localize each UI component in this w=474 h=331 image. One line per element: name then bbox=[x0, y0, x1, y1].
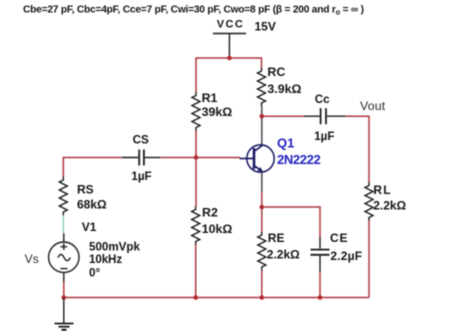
svg-text:2.2kΩ: 2.2kΩ bbox=[373, 199, 406, 213]
svg-text:2N2222: 2N2222 bbox=[277, 152, 321, 167]
svg-text:Vs: Vs bbox=[25, 252, 39, 266]
svg-text:R2: R2 bbox=[202, 206, 218, 220]
svg-text:RE: RE bbox=[268, 231, 285, 245]
node VCC junction bbox=[227, 56, 232, 61]
svg-text:RC: RC bbox=[267, 65, 285, 79]
power VCC symbol bbox=[213, 34, 246, 59]
svg-text:RS: RS bbox=[77, 183, 94, 197]
wire emitter to junction bbox=[261, 172, 263, 192]
svg-text:10kHz: 10kHz bbox=[89, 253, 122, 266]
resistor R1 bbox=[192, 92, 200, 131]
resistor RL bbox=[365, 182, 373, 221]
svg-text:15V: 15V bbox=[255, 19, 276, 33]
capacitor CS bbox=[122, 150, 161, 166]
wire Cc to Vout corner down to RL bbox=[346, 116, 369, 182]
resistor RE bbox=[258, 232, 266, 271]
ground bbox=[55, 298, 74, 330]
resistor RC bbox=[258, 68, 266, 107]
svg-text:Q1: Q1 bbox=[277, 136, 294, 151]
svg-text:Cbe=27 pF, Cbc=4pF, Cce=7 pF,: Cbe=27 pF, Cbc=4pF, Cce=7 pF, Cwi=30 pF,… bbox=[23, 4, 364, 16]
capacitor Cc bbox=[304, 108, 346, 124]
node collector junction bbox=[260, 114, 265, 119]
wire teal net RS to V1 bbox=[62, 216, 64, 234]
wire bottom rail bbox=[64, 297, 369, 299]
wire CS left to RS corner bbox=[63, 158, 122, 177]
svg-text:68kΩ: 68kΩ bbox=[77, 197, 107, 211]
wire base net (CS right to Q1 base) bbox=[161, 157, 241, 159]
wire R1 bottom to base node bbox=[195, 131, 197, 158]
svg-text:VCC: VCC bbox=[217, 18, 244, 30]
wire RE bottom to rail bbox=[261, 271, 263, 298]
svg-text:Vout: Vout bbox=[360, 99, 386, 113]
wire base node down to R2 bbox=[195, 158, 197, 207]
wire V1 to ground rail bbox=[63, 282, 65, 298]
wire top rail bbox=[196, 58, 262, 92]
wire R2 bottom to rail bbox=[195, 245, 197, 298]
svg-text:0°: 0° bbox=[89, 266, 100, 279]
capacitor CE bbox=[311, 237, 330, 272]
node R2-rail junction bbox=[193, 295, 198, 300]
wire RL bottom to rail bbox=[368, 221, 370, 298]
svg-text:2.2µF: 2.2µF bbox=[330, 249, 362, 263]
svg-text:500mVpk: 500mVpk bbox=[89, 240, 140, 253]
node bottom-left junction bbox=[62, 295, 67, 300]
svg-text:1µF: 1µF bbox=[314, 130, 334, 143]
wire RC bottom to collector bbox=[261, 107, 263, 146]
svg-text:1µF: 1µF bbox=[131, 170, 151, 183]
svg-text:10kΩ: 10kΩ bbox=[202, 222, 233, 236]
svg-text:CS: CS bbox=[133, 134, 149, 147]
resistor RS bbox=[59, 177, 67, 216]
node CE-rail junction bbox=[318, 295, 323, 300]
svg-text:39kΩ: 39kΩ bbox=[202, 105, 233, 119]
transistor Q1 bbox=[240, 145, 275, 172]
wire CE bottom to rail bbox=[319, 272, 321, 298]
svg-text:CE: CE bbox=[330, 231, 348, 245]
svg-text:V1: V1 bbox=[82, 220, 97, 234]
svg-text:R1: R1 bbox=[202, 91, 218, 105]
svg-text:Cc: Cc bbox=[315, 93, 330, 106]
resistor R2 bbox=[192, 206, 200, 245]
source V1 bbox=[49, 233, 79, 282]
node emitter junction bbox=[260, 205, 265, 210]
svg-text:RL: RL bbox=[373, 183, 391, 197]
svg-text:3.9kΩ: 3.9kΩ bbox=[267, 82, 301, 96]
node base junction bbox=[194, 155, 199, 160]
node RE-rail junction bbox=[260, 295, 265, 300]
wire collector node to Cc bbox=[262, 115, 304, 117]
wire emitter junction down to RE bbox=[261, 207, 263, 232]
wire emitter junction to CE branch bbox=[262, 207, 320, 237]
svg-text:2.2kΩ: 2.2kΩ bbox=[267, 248, 300, 262]
